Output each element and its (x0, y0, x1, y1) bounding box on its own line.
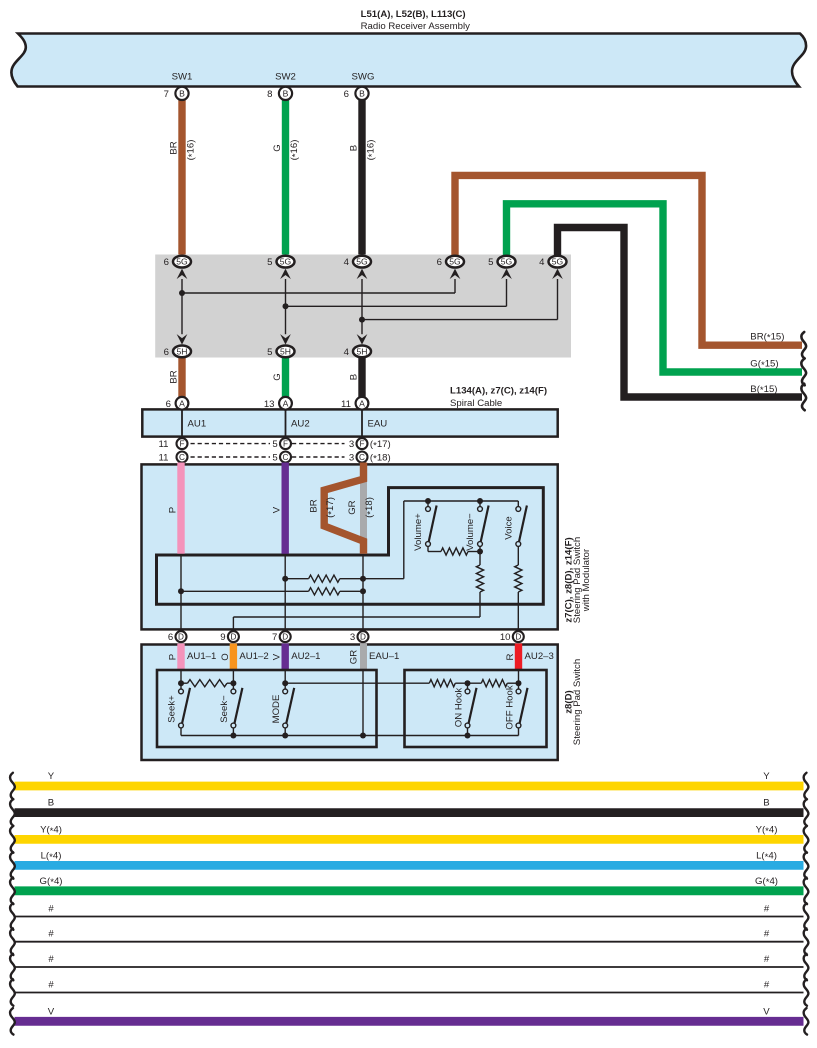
svg-text:#: # (48, 929, 54, 940)
svg-text:V: V (763, 1006, 770, 1017)
svg-text:ON Hook: ON Hook (454, 688, 465, 728)
svg-text:6: 6 (344, 89, 349, 100)
svg-text:B: B (179, 88, 185, 98)
svg-text:(*​18): (*​18) (364, 497, 376, 518)
svg-text:P: P (168, 507, 179, 513)
svg-text:B: B (349, 374, 360, 380)
svg-text:SW2: SW2 (275, 72, 296, 83)
svg-text:Y: Y (48, 771, 55, 782)
svg-text:(*​17): (*​17) (325, 497, 337, 518)
svg-text:AU1–2: AU1–2 (239, 651, 268, 662)
svg-text:MODE: MODE (271, 695, 282, 724)
svg-text:5G: 5G (280, 257, 292, 267)
svg-text:5G: 5G (356, 257, 368, 267)
svg-text:5H: 5H (177, 347, 188, 357)
svg-text:(*​16): (*​16) (186, 140, 198, 161)
svg-text:AU2: AU2 (291, 419, 310, 430)
svg-text:AU1–1: AU1–1 (187, 651, 216, 662)
svg-text:5G: 5G (176, 257, 188, 267)
svg-text:(*​18): (*​18) (370, 452, 391, 464)
svg-text:SWG: SWG (352, 72, 375, 83)
svg-text:Radio Receiver Assembly: Radio Receiver Assembly (361, 21, 471, 32)
svg-text:5: 5 (267, 257, 272, 268)
svg-text:GR: GR (347, 500, 358, 514)
svg-text:C: C (179, 453, 185, 462)
svg-text:B(*​15): B(*​15) (750, 384, 777, 396)
svg-text:L(*​4): L(*​4) (756, 851, 777, 863)
svg-text:Volume−: Volume− (465, 513, 476, 551)
svg-text:13: 13 (264, 399, 275, 410)
svg-text:D: D (515, 633, 521, 642)
svg-text:Volume+: Volume+ (413, 513, 424, 551)
svg-text:D: D (178, 633, 184, 642)
svg-text:C: C (359, 453, 365, 462)
svg-text:6: 6 (164, 257, 169, 268)
svg-text:4: 4 (344, 257, 350, 268)
svg-text:3: 3 (349, 452, 354, 463)
svg-text:P: P (168, 654, 179, 660)
svg-text:G(*​4): G(*​4) (40, 876, 63, 888)
svg-text:#: # (764, 980, 770, 991)
svg-text:D: D (360, 633, 366, 642)
svg-text:(*​16): (*​16) (289, 140, 301, 161)
svg-text:F: F (179, 440, 184, 449)
svg-text:5: 5 (272, 439, 277, 450)
svg-text:BR: BR (169, 141, 180, 154)
svg-text:7: 7 (164, 89, 169, 100)
svg-text:AU1: AU1 (188, 419, 207, 430)
svg-text:B: B (48, 798, 54, 809)
svg-text:11: 11 (159, 452, 169, 463)
svg-text:BR: BR (309, 499, 320, 512)
svg-text:B: B (359, 88, 365, 98)
svg-text:3: 3 (350, 632, 355, 643)
svg-text:A: A (179, 398, 185, 408)
svg-text:C: C (283, 453, 289, 462)
svg-text:11: 11 (341, 399, 351, 410)
svg-text:L134(A), z7(C), z14(F): L134(A), z7(C), z14(F) (450, 386, 547, 397)
svg-text:10: 10 (500, 632, 511, 643)
svg-text:5H: 5H (357, 347, 368, 357)
svg-text:with Modulator: with Modulator (581, 548, 592, 612)
svg-text:(*​17): (*​17) (370, 439, 391, 451)
svg-text:A: A (359, 398, 365, 408)
svg-text:L(*​4): L(*​4) (41, 851, 62, 863)
svg-text:GR: GR (349, 650, 360, 664)
svg-text:(*​16): (*​16) (366, 140, 378, 161)
svg-text:#: # (764, 954, 770, 965)
svg-text:#: # (48, 980, 54, 991)
svg-text:Y(*​4): Y(*​4) (40, 825, 62, 837)
svg-text:5: 5 (272, 452, 277, 463)
svg-text:BR(*​15): BR(*​15) (750, 331, 784, 343)
svg-text:6: 6 (166, 399, 171, 410)
svg-text:7: 7 (272, 632, 277, 643)
svg-text:B: B (283, 88, 289, 98)
svg-text:Spiral Cable: Spiral Cable (450, 398, 502, 409)
svg-text:6: 6 (437, 257, 442, 268)
svg-text:B: B (763, 798, 769, 809)
svg-text:#: # (48, 904, 54, 915)
svg-text:6: 6 (168, 632, 173, 643)
svg-text:#: # (764, 904, 770, 915)
svg-text:AU2–1: AU2–1 (291, 651, 320, 662)
svg-text:EAU: EAU (368, 419, 388, 430)
svg-text:5G: 5G (449, 257, 461, 267)
svg-text:D: D (230, 633, 236, 642)
svg-text:B: B (349, 145, 360, 151)
svg-text:V: V (272, 653, 283, 660)
svg-text:V: V (272, 506, 283, 513)
svg-text:A: A (283, 398, 289, 408)
svg-text:5G: 5G (501, 257, 513, 267)
svg-text:G: G (272, 373, 283, 380)
svg-text:Steering Pad Switch: Steering Pad Switch (572, 659, 583, 745)
svg-text:F: F (359, 440, 364, 449)
svg-text:SW1: SW1 (172, 72, 193, 83)
svg-text:Y(*​4): Y(*​4) (756, 825, 778, 837)
svg-text:OFF Hook: OFF Hook (505, 685, 516, 729)
svg-text:G(*​4): G(*​4) (755, 876, 778, 888)
svg-text:11: 11 (159, 439, 169, 450)
svg-text:#: # (764, 929, 770, 940)
svg-text:L51(A), L52(B), L113(C): L51(A), L52(B), L113(C) (361, 9, 466, 20)
svg-text:V: V (48, 1006, 55, 1017)
svg-text:D: D (282, 633, 288, 642)
svg-text:#: # (48, 954, 54, 965)
svg-text:3: 3 (349, 439, 354, 450)
svg-text:O: O (220, 653, 231, 660)
svg-text:4: 4 (344, 347, 350, 358)
svg-text:4: 4 (539, 257, 545, 268)
svg-text:G: G (272, 144, 283, 151)
svg-text:F: F (283, 440, 288, 449)
svg-text:6: 6 (164, 347, 169, 358)
svg-text:5: 5 (488, 257, 493, 268)
svg-text:G(*​15): G(*​15) (750, 359, 778, 371)
svg-text:EAU–1: EAU–1 (369, 651, 399, 662)
svg-text:5: 5 (267, 347, 272, 358)
svg-text:Seek−: Seek− (219, 695, 230, 723)
svg-text:5G: 5G (552, 257, 564, 267)
svg-text:BR: BR (169, 370, 180, 383)
svg-text:Seek+: Seek+ (167, 695, 178, 723)
svg-text:R: R (505, 653, 516, 660)
svg-text:9: 9 (220, 632, 225, 643)
svg-text:AU2–3: AU2–3 (525, 651, 554, 662)
svg-text:5H: 5H (280, 347, 291, 357)
svg-text:8: 8 (267, 89, 272, 100)
svg-text:Y: Y (763, 771, 770, 782)
svg-text:Voice: Voice (503, 516, 514, 539)
